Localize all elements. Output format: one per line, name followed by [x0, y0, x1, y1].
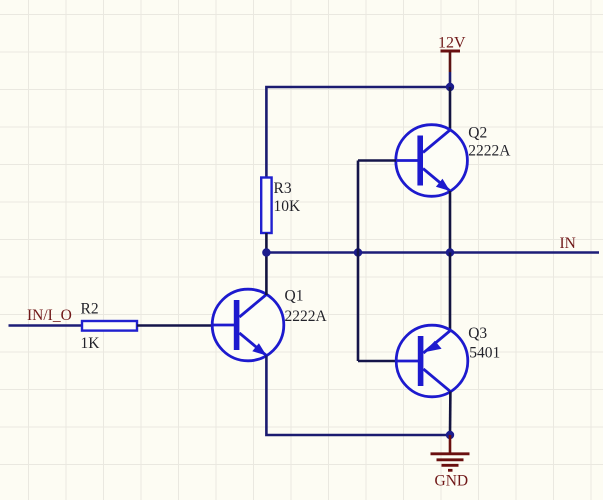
resistor R3: [261, 178, 271, 234]
junction at 12V rail: [446, 83, 454, 91]
junction at ground node: [446, 431, 454, 439]
wire: R3 bottom to mid node: [265, 233, 268, 253]
junction at base branch node: [354, 248, 362, 256]
wire: input net from left edge to R2: [9, 324, 83, 327]
svg-text:2222A: 2222A: [468, 142, 511, 159]
wire: Q1 emitter down and right to ground node: [266, 356, 450, 436]
power port 12V: [441, 51, 461, 87]
svg-text:Q3: Q3: [468, 325, 487, 342]
junction at mid-left node: [262, 248, 270, 256]
wire: 12V node down to Q2 collector: [449, 87, 452, 130]
wire: mid horizontal net to right edge: [266, 251, 599, 254]
svg-text:GND: GND: [435, 473, 469, 490]
svg-text:Q2: Q2: [468, 125, 487, 142]
resistor R2: [82, 321, 137, 331]
wire: Q3 collector down to ground node: [449, 392, 452, 436]
svg-text:5401: 5401: [469, 344, 500, 361]
transistor Q2 (NPN 2222A): [396, 125, 468, 197]
junction at output node: [446, 248, 454, 256]
wire: R2 to Q1 base: [137, 324, 213, 327]
wire: Q1 collector up to mid node: [265, 253, 268, 296]
wire: mid node down to Q3 emitter: [449, 253, 452, 331]
svg-text:10K: 10K: [274, 198, 302, 215]
wire: Q2 emitter down to mid node: [449, 191, 452, 253]
wire: branch to Q3 base: [358, 360, 397, 363]
svg-text:1K: 1K: [81, 335, 101, 352]
svg-text:IN/I_O: IN/I_O: [27, 307, 72, 324]
transistor Q3 (PNP 5401): [396, 325, 468, 397]
svg-text:IN: IN: [560, 235, 576, 252]
svg-text:Q1: Q1: [285, 288, 304, 305]
ground GND: [431, 435, 470, 470]
wire: base branch vertical: [357, 161, 360, 362]
svg-text:2222A: 2222A: [285, 308, 328, 325]
svg-text:R2: R2: [81, 301, 99, 318]
transistor Q1 (NPN 2222A): [212, 289, 284, 361]
svg-text:12V: 12V: [438, 35, 466, 52]
wire: top rail corner down to R3: [266, 87, 450, 178]
svg-text:R3: R3: [274, 180, 292, 197]
wire: branch to Q2 base: [358, 159, 396, 162]
